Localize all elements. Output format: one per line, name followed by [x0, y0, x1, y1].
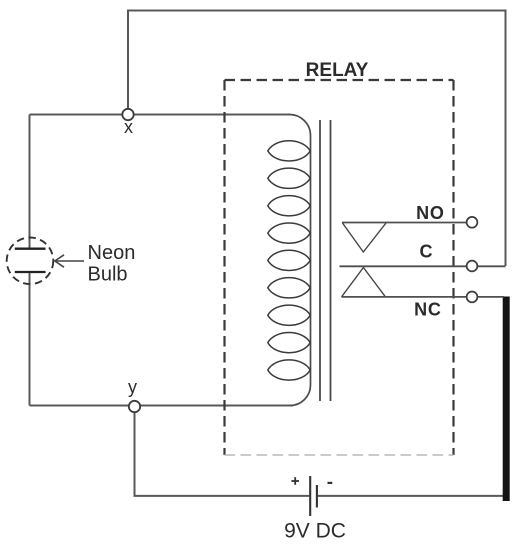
relay enclosure dashed box: [225, 80, 454, 455]
relay coil outline (top feed curve, return wire, bottom feed curve): [289, 114, 311, 405]
contact C line: [340, 265, 467, 267]
terminal NO: [467, 217, 478, 228]
node y: [129, 401, 140, 412]
wire left horizontal from left corner through node x into relay box: [30, 114, 291, 116]
wire bottom horizontal right of battery to thick wire: [318, 495, 509, 497]
relay coil L1 turns (9 loops): [268, 141, 310, 380]
svg-text:NO: NO: [416, 203, 445, 223]
neon bulb NE1 dashed envelope: [7, 237, 54, 284]
svg-text:x: x: [124, 117, 133, 137]
contact NC line right of terminal: [478, 296, 505, 298]
terminal NC: [467, 292, 478, 303]
contact NC triangle (pointing up, touching C): [342, 268, 386, 297]
battery minus sign: [328, 482, 333, 484]
svg-text:RELAY: RELAY: [306, 60, 369, 81]
battery plus sign: [291, 477, 299, 485]
wire bottom-left horizontal through node y to coil bottom: [30, 405, 294, 407]
wire from node y down to battery row: [134, 406, 136, 496]
wire top loop (node x up, across top, down right side to C): [128, 11, 506, 267]
svg-text:C: C: [420, 242, 433, 262]
battery B1 positive plate (long): [309, 476, 311, 516]
contact NC line: [342, 296, 467, 298]
svg-text:y: y: [128, 377, 137, 397]
node x: [122, 109, 133, 120]
thick wire right side (NC to bottom): [503, 297, 510, 502]
neon bulb pointer arrow: [55, 255, 84, 267]
contact C line right of terminal: [478, 265, 506, 267]
battery B1 negative plate (short): [316, 485, 318, 508]
relay core lines: [319, 120, 321, 401]
wire left vertical upper (to neon bulb top electrode): [29, 115, 31, 249]
wire bottom horizontal left of battery: [134, 495, 310, 497]
terminal C: [467, 261, 478, 272]
svg-text:9V DC: 9V DC: [284, 520, 346, 543]
svg-text:Neon: Neon: [88, 242, 136, 264]
wire left vertical lower (from neon bulb bottom electrode to bottom corner): [29, 272, 31, 406]
contact NO triangle (armature, pointing down): [343, 223, 387, 252]
svg-text:NC: NC: [414, 300, 442, 320]
svg-text:Bulb: Bulb: [88, 264, 128, 286]
neon bulb top electrode: [15, 248, 46, 250]
contact NO line: [342, 222, 467, 224]
neon bulb bottom electrode: [15, 271, 46, 273]
